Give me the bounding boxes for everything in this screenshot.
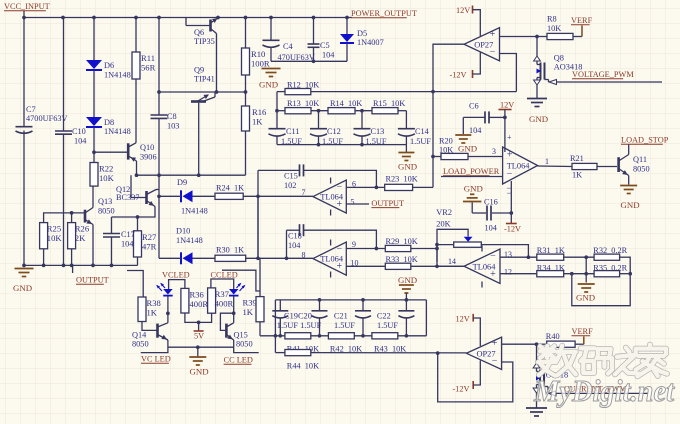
wire pin13 row [500, 256, 537, 258]
svg-text:R33 10K: R33 10K [386, 255, 418, 264]
wire C17 top [111, 217, 113, 234]
svg-text:C8: C8 [167, 112, 177, 121]
svg-text:1N4148: 1N4148 [176, 236, 203, 245]
junction capbus x406 [405, 298, 409, 302]
junction bus2 x71 [70, 264, 74, 268]
junction n r34 a [570, 272, 574, 276]
wire CURRENT_PWM + gate arrow [544, 386, 548, 388]
svg-text:104: 104 [74, 137, 87, 146]
svg-text:R31 1K: R31 1K [537, 246, 565, 255]
svg-text:OUTPUT: OUTPUT [76, 276, 109, 285]
svg-text:8050: 8050 [633, 165, 650, 174]
wire C22 bot [405, 318, 407, 336]
diode D8 1N4148 [86, 117, 102, 126]
wire col R11 [135, 18, 137, 53]
svg-text:+: + [507, 149, 513, 160]
svg-text:3906: 3906 [140, 153, 157, 162]
ground GND q11 [620, 185, 637, 187]
svg-text:C22: C22 [377, 312, 391, 321]
wire c18 top [287, 229, 300, 231]
junction n row175 a [135, 173, 139, 177]
wire col C7 [23, 18, 25, 127]
svg-text:GND: GND [190, 367, 209, 377]
junction n 5v gnd [196, 345, 200, 349]
svg-text:C15: C15 [284, 172, 298, 181]
transistor Q16 AO3418 [536, 344, 538, 363]
svg-text:R32 0.2R: R32 0.2R [593, 246, 627, 255]
svg-text:R37: R37 [215, 289, 230, 299]
svg-text:Q10: Q10 [140, 143, 154, 152]
svg-text:VC LED: VC LED [141, 355, 171, 364]
wire VOLTAGE_PWM + gate arrow [545, 79, 549, 81]
svg-text:1K: 1K [243, 307, 254, 317]
svg-text:TL064: TL064 [320, 255, 344, 264]
svg-text:TL064: TL064 [507, 162, 531, 171]
svg-text:-12V: -12V [453, 385, 470, 394]
resistor R24 1K [215, 193, 243, 199]
svg-text:12V: 12V [456, 315, 470, 324]
wire pin12 row [500, 273, 537, 275]
wire d9 l [159, 195, 181, 197]
wire Q13 base row [44, 213, 84, 223]
svg-text:R29 10K: R29 10K [386, 237, 418, 246]
resistor R30 1K [215, 255, 246, 261]
svg-text:R24 1K: R24 1K [216, 184, 244, 193]
resistor R34 1K [537, 271, 564, 277]
transistor Q14 8050 [156, 324, 159, 338]
wire R27 top [137, 217, 139, 231]
svg-text:R11: R11 [141, 53, 155, 63]
wire row110 b [311, 110, 328, 112]
svg-text:104: 104 [485, 224, 498, 233]
watermark chars (shu ma zhi jia) [538, 345, 667, 377]
svg-text:1.5UF: 1.5UF [334, 321, 355, 330]
wire R8 r [573, 36, 582, 38]
svg-text:GND: GND [398, 162, 417, 172]
wire vcled U [169, 280, 185, 289]
power pin stubs TL064 [330, 178, 332, 184]
resistor R16 1K [242, 106, 250, 131]
junction r41row x280 [278, 334, 282, 338]
junction n row144 a [317, 143, 321, 147]
wire Q13 emitter [92, 225, 94, 266]
op-amp U3A TL064 (pin1-2-3) [503, 147, 538, 184]
wire c16 gnd stem [471, 202, 473, 213]
wire C5 bot [313, 47, 315, 61]
wire -12v op27a [473, 53, 481, 75]
Q15 arrow [227, 335, 232, 340]
svg-text:OUTPUT: OUTPUT [371, 199, 404, 208]
wire row110 a [277, 110, 285, 112]
junction n row61 [312, 59, 316, 63]
svg-text:GND: GND [621, 200, 640, 210]
wire R26 top [71, 213, 73, 223]
junction n led2 [232, 311, 236, 315]
resistor R25 10K [40, 223, 48, 249]
transistor Q10 3906 [129, 143, 136, 147]
wire pin2 [441, 176, 503, 178]
wire emit row [168, 346, 234, 348]
diode D9 1N4148 [180, 190, 182, 202]
wire r39 bot link [259, 322, 261, 336]
wire Q10 emitter [136, 161, 138, 175]
wire row92 [159, 91, 246, 93]
svg-text:Q11: Q11 [633, 155, 647, 164]
wire c15 left leg [257, 170, 259, 258]
wire C14 top [405, 111, 407, 129]
wire C12 bot [318, 136, 320, 145]
svg-text:400R: 400R [190, 299, 209, 309]
svg-text:103: 103 [167, 122, 179, 131]
junction n q16 [535, 342, 539, 346]
wire op27a minus loop [500, 54, 517, 92]
svg-text:100R: 100R [251, 59, 270, 69]
svg-text:104: 104 [288, 241, 301, 250]
svg-text:4700UF63V: 4700UF63V [26, 114, 68, 123]
wire c6 l [463, 116, 485, 118]
resistor R21 1K [572, 163, 597, 169]
wire vcled wire [127, 271, 143, 298]
svg-text:C6: C6 [469, 102, 479, 111]
wire d9-r24 [193, 195, 216, 197]
wire op27a plus [500, 36, 538, 38]
wire vr2 link [436, 245, 438, 267]
wire R27 bot [137, 257, 139, 265]
junction bus x218 [216, 16, 220, 20]
junction bus x245 [244, 16, 248, 20]
wire capbus left [274, 300, 276, 353]
wire r44-op [311, 352, 467, 354]
wire C21 top [362, 300, 364, 311]
wire 12v op27b [473, 318, 480, 346]
svg-text:C4: C4 [283, 42, 294, 51]
wire C20 top [319, 300, 321, 311]
svg-text:TL064: TL064 [473, 262, 497, 271]
svg-text:5V: 5V [194, 332, 204, 341]
svg-text:1.5UF: 1.5UF [377, 321, 398, 330]
svg-text:12V: 12V [500, 101, 514, 110]
wire C17 bot [111, 237, 113, 265]
junction n row92 a [215, 90, 219, 94]
wire R16 top [245, 92, 247, 106]
svg-text:R38: R38 [147, 298, 161, 308]
svg-text:1.5UF: 1.5UF [410, 137, 431, 146]
wire cap bus [275, 299, 426, 301]
junction r41row x406 [405, 334, 409, 338]
svg-text:VERF: VERF [571, 16, 593, 25]
op-amp U3D TL064 (pin12-13-14) [464, 249, 500, 284]
watermark MyDigit.net [533, 373, 675, 408]
junction bus2 l [22, 264, 26, 268]
svg-text:1K: 1K [147, 308, 158, 318]
resistor R26 2K [68, 223, 76, 249]
junction n row110 l [275, 109, 279, 113]
wire R10-row92 [245, 75, 247, 92]
svg-text:14: 14 [448, 257, 456, 266]
svg-text:C7: C7 [26, 105, 36, 114]
capacitor C7 4700UF63V [16, 126, 33, 128]
wire vr2 l [437, 244, 454, 246]
svg-text:C11: C11 [286, 127, 300, 136]
svg-text:8050: 8050 [236, 340, 253, 349]
svg-text:56R: 56R [141, 63, 156, 73]
wire -12v op27b [473, 361, 480, 386]
capacitor C10 104 [55, 130, 72, 132]
wire d10 l [159, 257, 181, 259]
wire ccled U [211, 279, 234, 289]
svg-text:1.5UF 1.5UF: 1.5UF 1.5UF [277, 321, 322, 330]
svg-text:1N4148: 1N4148 [181, 207, 208, 216]
wire r32 r [620, 256, 631, 258]
ground GND main [15, 268, 34, 270]
wire led2-q15base [220, 313, 233, 330]
wire d10-r30 [193, 257, 216, 259]
wire c6 gnd stub [462, 117, 464, 134]
svg-text:1N4007: 1N4007 [357, 38, 384, 47]
wire r40 l [537, 343, 547, 345]
capacitor C15 102 [299, 164, 301, 176]
junction n 12v [503, 116, 507, 120]
junction bus x347 [345, 16, 349, 20]
svg-text:Q9: Q9 [194, 66, 204, 75]
op-amp U3C TL064 (pin8-9-10) [313, 242, 346, 275]
resistor R8 10K [547, 33, 573, 39]
junction capbus x363 [361, 298, 365, 302]
junction capbus x319 [318, 298, 322, 302]
wire ccled wire [222, 270, 260, 291]
junction n r30 c [285, 256, 289, 260]
junction bus2 x93 [91, 264, 95, 268]
junction n row110 b [360, 109, 364, 113]
wire c15 r [304, 170, 377, 187]
wire c16 r [492, 212, 511, 214]
svg-text:8: 8 [302, 250, 306, 259]
ground GND mid [189, 356, 206, 358]
svg-text:LOAD_POWER: LOAD_POWER [443, 167, 500, 176]
wire Q9 emitter [198, 103, 200, 176]
svg-text:R10: R10 [251, 49, 265, 59]
wire C11 bot [276, 136, 278, 145]
svg-text:GND: GND [13, 283, 32, 293]
transistor Q6 TIP35 [185, 18, 187, 26]
junction n op27b out [436, 351, 440, 355]
wire C19 top [279, 300, 281, 311]
wire q11 emit [628, 176, 630, 185]
svg-text:CC LED: CC LED [224, 356, 253, 365]
svg-text:R21: R21 [570, 154, 584, 163]
svg-text:Q8: Q8 [554, 54, 564, 63]
svg-text:C10: C10 [72, 127, 86, 136]
svg-text:C21: C21 [334, 312, 348, 321]
svg-text:GND: GND [576, 293, 595, 303]
svg-text:VCLED: VCLED [162, 271, 190, 280]
svg-text:1N4148: 1N4148 [104, 127, 131, 136]
svg-text:R16: R16 [252, 107, 267, 117]
svg-text:GND: GND [259, 80, 278, 90]
capacitor C17 104 [103, 233, 120, 235]
wire pin10 row [346, 265, 385, 267]
wire C4 bot [270, 47, 272, 61]
svg-text:8050: 8050 [132, 340, 149, 349]
Q11 arrow [622, 170, 627, 175]
wire r41 row [260, 335, 426, 337]
svg-text:Q13: Q13 [98, 197, 112, 206]
wire Q13 collector [92, 186, 94, 207]
resistor R43 10K [372, 333, 398, 339]
Q12 arrow [149, 201, 154, 206]
junction n r27 [136, 215, 140, 219]
wire c16 l [472, 212, 486, 214]
svg-text:R42 10K: R42 10K [330, 344, 362, 353]
resistor R15 10K [372, 108, 398, 114]
wire output stub [72, 265, 74, 273]
wire tl1 vminus [510, 181, 512, 224]
svg-text:GND: GND [529, 114, 548, 124]
wire 5v U [185, 313, 212, 322]
svg-text:GND: GND [458, 144, 477, 154]
led2 arrowheads [242, 285, 246, 289]
wire D6-D8 [93, 71, 95, 118]
svg-text:+: + [492, 338, 498, 349]
svg-text:R30 1K: R30 1K [216, 246, 244, 255]
wire r24-pin7 [243, 195, 313, 197]
wire r20-pin3 [468, 156, 503, 158]
capacitor C21 1.5UF [355, 310, 371, 312]
svg-text:10K: 10K [99, 173, 115, 183]
wire q14 emit [141, 340, 168, 353]
capacitor C11 1.5UF [269, 128, 286, 130]
transistor Q12 BC337 [145, 191, 148, 204]
wire r20 row [433, 156, 441, 158]
resistor R14 10K [328, 108, 355, 114]
wire row175 [137, 174, 246, 176]
svg-text:10K: 10K [47, 233, 63, 243]
junction bus x136 [134, 16, 138, 20]
resistor R10 100R [242, 48, 250, 75]
svg-text:10K: 10K [547, 24, 561, 33]
svg-text:VERF: VERF [572, 327, 594, 336]
resistor R31 1K [537, 254, 564, 260]
svg-text:C16: C16 [484, 198, 498, 207]
wire R11-Q10 [135, 79, 137, 143]
wire D5 bot [346, 44, 348, 62]
junction bus x159 [157, 16, 161, 20]
Q13 arrow [86, 219, 92, 224]
svg-text:1K: 1K [252, 117, 263, 127]
wire C5 top [313, 18, 315, 45]
wire vr2 r [481, 245, 528, 258]
svg-text:C18: C18 [288, 232, 302, 241]
wire led1 bot [167, 297, 169, 323]
svg-text:47R: 47R [142, 241, 157, 251]
wire r23-x433 [413, 186, 433, 188]
svg-text:C14: C14 [415, 127, 430, 136]
wire link r12 r13 [276, 92, 278, 111]
junction n row144 b [360, 143, 364, 147]
LED VC blue [163, 289, 173, 295]
svg-text:R39: R39 [243, 298, 257, 308]
svg-text:-12V: -12V [504, 225, 521, 234]
op-amp U3B TL064 (pin5-6-7) [313, 180, 346, 213]
junction bus x94 [92, 16, 96, 20]
svg-text:3: 3 [492, 147, 496, 156]
junction n vr2 l [435, 243, 439, 247]
resistor R41 10K [285, 333, 311, 339]
svg-text:Q6: Q6 [194, 28, 204, 37]
junction n r30 a [256, 256, 260, 260]
svg-text:GND: GND [398, 275, 417, 285]
svg-text:R36: R36 [190, 289, 205, 299]
ground GND caps inv [399, 284, 414, 286]
diode D5 1N4007 [340, 34, 354, 42]
wire D8-R22 [93, 128, 95, 163]
junction n row92 b [244, 90, 248, 94]
wire r33 r [411, 265, 464, 267]
wire Q6-row92 [216, 34, 218, 93]
svg-text:+: + [490, 29, 496, 40]
wire row91 l [277, 91, 285, 93]
wire r29 r [411, 248, 437, 250]
svg-text:D9: D9 [177, 178, 187, 187]
resistor R22 10K [90, 163, 98, 187]
svg-text:9: 9 [352, 240, 356, 249]
capacitor C19 1.5UF [272, 310, 288, 312]
svg-text:1: 1 [545, 157, 549, 166]
svg-text:12: 12 [504, 268, 512, 277]
svg-text:400R: 400R [215, 298, 234, 308]
svg-text:R26: R26 [75, 224, 90, 234]
resistor R36 400R [181, 288, 189, 313]
Q10 arrow [131, 157, 137, 162]
ground GND c14 [398, 152, 414, 154]
resistor R32 0.2R [594, 254, 620, 260]
resistor R23 10K [385, 184, 413, 190]
wire R26 bot [71, 249, 73, 266]
wire r30-pin8 [246, 257, 313, 259]
svg-text:OP27: OP27 [474, 40, 493, 49]
diode D10 1N4148 [180, 252, 182, 264]
wire C8 bot [158, 118, 160, 175]
svg-text:C5: C5 [320, 41, 330, 50]
svg-text:C17: C17 [121, 230, 135, 239]
svg-text:102: 102 [284, 181, 296, 190]
junction bus2 x111 [110, 264, 114, 268]
junction n q13b [70, 211, 74, 215]
wire C19 bot [279, 318, 281, 336]
svg-text:R15 10K: R15 10K [373, 99, 405, 108]
svg-text:-12V: -12V [450, 71, 467, 80]
junction n 5v [197, 321, 201, 325]
junction n out14 [435, 264, 439, 268]
wire op27b plus [502, 343, 537, 345]
wire r34 r [564, 273, 594, 275]
wire c15 top [258, 169, 300, 171]
wire D5 top [346, 18, 348, 35]
svg-text:TL064: TL064 [320, 193, 344, 202]
junction bus x313 [312, 16, 316, 20]
wire q15 emit [234, 340, 259, 353]
wire C21 bot [362, 318, 364, 336]
svg-text:VOLTAGE_PWM: VOLTAGE_PWM [572, 70, 634, 79]
svg-text:R8: R8 [547, 15, 557, 24]
wire gnd bus [24, 264, 138, 266]
wire col C10 low [63, 134, 65, 265]
junction n r34 b [584, 272, 588, 276]
svg-text:R43 10K: R43 10K [374, 344, 406, 353]
ground GND c6 [455, 134, 471, 136]
svg-text:C12: C12 [327, 127, 341, 136]
svg-text:R13 10K: R13 10K [287, 99, 319, 108]
